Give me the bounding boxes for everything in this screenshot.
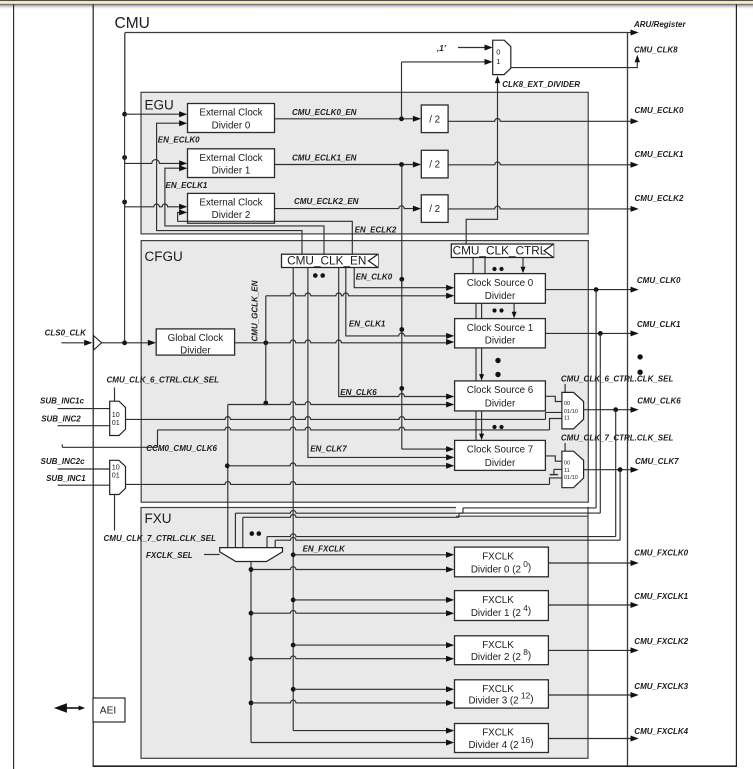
CMU_CLK1 node dot — [598, 331, 603, 336]
CMU_CLK8 output wire — [511, 60, 638, 68]
svg-text:EN_ECLK0: EN_ECLK0 — [158, 136, 200, 145]
svg-text:0: 0 — [496, 48, 500, 57]
outer frame bottom border — [93, 765, 737, 767]
CS6-CS7 arrow line — [481, 411, 483, 435]
CMU_CLK6 output wire — [584, 409, 632, 411]
svg-text:CMU_ECLK0: CMU_ECLK0 — [635, 106, 684, 115]
CS0-CS1 arrowhead — [512, 312, 517, 319]
fxclk sel dots — [250, 531, 255, 536]
svg-text:11: 11 — [564, 416, 570, 422]
Clock Source 7 Divider box — [455, 440, 546, 470]
CMU_FXCLK4 output wire — [548, 738, 632, 740]
svg-text:CMU_FXCLK1: CMU_FXCLK1 — [634, 592, 688, 601]
svg-text:Divider: Divider — [180, 345, 211, 356]
svg-text:AEI: AEI — [100, 706, 116, 717]
CS6-CS7 dots — [492, 425, 496, 429]
svg-text:CLS0_CLK: CLS0_CLK — [45, 329, 88, 338]
svg-text:EN_CLK1: EN_CLK1 — [349, 320, 386, 329]
EN_CLK6 wire — [339, 268, 448, 397]
CMU_CLK7 node dot — [618, 467, 623, 472]
arrow clk into fx3 — [446, 700, 454, 706]
CCM0 vertical — [157, 430, 159, 447]
svg-text:CMU_FXCLK4: CMU_FXCLK4 — [634, 727, 688, 736]
EN_FXCLK branch 2 — [293, 644, 448, 646]
CMU_FXCLK2 output wire — [548, 649, 632, 651]
svg-text:01: 01 — [112, 418, 120, 427]
arrow into /2 box 2 — [413, 206, 421, 212]
gray rule under tan bar — [0, 4, 753, 5]
input buffer triangle — [94, 336, 102, 350]
External Clock Divider 0 box — [188, 104, 275, 133]
vertical CMU border clk feed — [124, 114, 126, 343]
FXCLK_SEL dash — [204, 554, 220, 556]
svg-text:EN_ECLK1: EN_ECLK1 — [166, 181, 208, 190]
gclk wire to CS0 — [266, 293, 448, 296]
svg-text:00: 00 — [564, 401, 570, 407]
clk7 mux select stub — [564, 443, 566, 451]
arrow into /2 box 0 — [413, 116, 421, 122]
mux1 output wire — [126, 417, 546, 420]
arrow clk into fx4 — [446, 740, 454, 746]
/2 box 2 — [421, 195, 448, 223]
mux CLK8_EXT_DIVIDER — [493, 40, 511, 74]
svg-text:Divider 0: Divider 0 — [212, 120, 251, 131]
CS0-CS1 stub b — [481, 303, 483, 318]
svg-text:Clock Source 0: Clock Source 0 — [467, 278, 534, 289]
svg-text:CMU_FXCLK3: CMU_FXCLK3 — [634, 682, 688, 691]
Clock Source 0 Divider box — [455, 274, 546, 304]
arrow clk into fx1 — [446, 610, 454, 616]
left page margin line — [13, 4, 15, 769]
arrow EN into divider2 — [179, 209, 187, 215]
svg-text:/ 2: / 2 — [429, 204, 440, 215]
svg-text:ARU/Register: ARU/Register — [633, 20, 686, 29]
register CMU_CLK_CTRL — [451, 244, 553, 258]
FXU notch bottom edge — [456, 515, 588, 517]
dist node dot CS0 — [399, 277, 404, 282]
svg-text:EN_CLK7: EN_CLK7 — [310, 445, 347, 454]
svg-text:01: 01 — [112, 471, 120, 480]
gclk branch down — [265, 343, 267, 405]
fx clk node dot 3 — [249, 701, 254, 706]
arrow EN into fx4 — [446, 728, 454, 734]
EN_CLK0 wire — [354, 268, 448, 288]
arrow EN into divider1 — [179, 165, 187, 171]
node dot row1 tap — [399, 162, 404, 167]
CMU_CLK1 arrowhead — [631, 330, 639, 336]
svg-text:01/10: 01/10 — [564, 475, 578, 481]
gclk wire to CS7 — [227, 463, 448, 466]
svg-text:EN_CLK6: EN_CLK6 — [340, 388, 377, 397]
register CMU_CLK_EN — [282, 254, 379, 267]
fx clk branch 3 — [251, 700, 448, 703]
omitted outputs dots — [637, 354, 642, 359]
CMU_ECLK0 arrowhead — [631, 118, 639, 124]
SUB_INC2c wire — [58, 468, 110, 470]
AEI box — [93, 698, 125, 722]
svg-text:CMU_CLK_CTRL: CMU_CLK_CTRL — [453, 244, 547, 258]
svg-text:FXCLK: FXCLK — [482, 640, 514, 651]
tan highlight bar — [0, 1, 753, 4]
dist turn into CS7 — [402, 448, 448, 450]
svg-text:FXU: FXU — [145, 511, 172, 526]
EN_FXCLK node dot 0 — [291, 552, 296, 557]
gclk node dot low — [263, 401, 268, 406]
wire row0 to divider0 — [125, 113, 181, 115]
FXCLK Divider 3 box — [455, 680, 549, 708]
CMU_CLK7 arrowhead — [631, 467, 639, 473]
EN_FXCLK branch 0 — [293, 554, 448, 556]
dist stub CS0 — [401, 279, 403, 287]
svg-text:1: 1 — [496, 57, 500, 66]
Clock Source 6 Divider box — [455, 381, 546, 411]
/2 box 0 — [421, 105, 448, 133]
mux1 output into CLK6 mux — [546, 412, 562, 419]
EN_ECLK2 enable wire — [178, 212, 353, 254]
CLK1 feedback — [599, 333, 601, 513]
SUB_INC2 wire — [58, 425, 110, 427]
CMU_CLK7 output wire — [584, 469, 632, 471]
CMU_FXCLK0 output wire — [548, 562, 632, 564]
ARU/Register wire — [628, 32, 633, 34]
svg-text:CMU_ECLK0_EN: CMU_ECLK0_EN — [292, 108, 357, 117]
arrow dist into CS7 — [446, 446, 454, 452]
constant tie symbol — [553, 469, 555, 474]
mux2 output into CLK7 mux — [550, 478, 562, 485]
gclk branch up — [265, 296, 267, 343]
FXU top-right white notch — [456, 503, 587, 516]
CMU block left edge upper — [124, 33, 126, 115]
svg-text:CMU_CLK_7_CTRL.CLK_SEL: CMU_CLK_7_CTRL.CLK_SEL — [561, 434, 674, 443]
mux2 select stub — [114, 495, 116, 531]
svg-text:CMU_FXCLK2: CMU_FXCLK2 — [634, 637, 688, 646]
tie wire into mux — [554, 468, 562, 470]
svg-text:SUB_INC2c: SUB_INC2c — [41, 457, 86, 466]
fx clk branch 0 — [251, 567, 448, 570]
External Clock Divider 2 box — [188, 193, 275, 223]
svg-text:CMU_CLK6: CMU_CLK6 — [637, 396, 681, 405]
arrow into mux input 0 — [485, 45, 493, 51]
EN_FXCLK node dot 2 — [291, 643, 296, 648]
CLK0 feedback — [595, 290, 597, 508]
svg-text:Divider: Divider — [485, 291, 516, 302]
arrow EN into divider0 — [179, 120, 187, 126]
outer frame left border — [92, 4, 94, 766]
fx clk branch 2 — [251, 656, 448, 659]
arrow clk into fx0 — [446, 567, 454, 573]
mux1 select stub — [114, 388, 116, 402]
wire ,1' to mux — [458, 47, 486, 49]
svg-text:Divider: Divider — [485, 335, 516, 346]
CCM0 stub — [61, 444, 63, 447]
Global Clock Divider box — [156, 329, 234, 355]
clk6 mux select stub — [564, 384, 566, 393]
svg-text:Divider: Divider — [485, 458, 516, 469]
svg-text:EN_FXCLK: EN_FXCLK — [303, 544, 346, 553]
CMU block top edge — [125, 32, 628, 34]
dist stub CS1 — [401, 330, 403, 336]
arrow EN_CLK0 into CS0 — [446, 285, 454, 291]
svg-text:SUB_INC2: SUB_INC2 — [41, 414, 81, 423]
CMU_ECLK1 output wire — [448, 162, 632, 165]
CMU_ECLK2 arrowhead — [631, 206, 639, 212]
gclk down vertical left — [227, 405, 229, 548]
outer frame right border — [735, 4, 737, 766]
arrow into mux input 1 — [485, 59, 493, 65]
arrow EN into fx0 — [446, 552, 454, 558]
CMU_FXCLK3 output wire — [548, 694, 632, 696]
CS6 to mux wire — [545, 396, 562, 401]
CMU_ECLK2 output wire — [448, 206, 632, 209]
svg-text:CLK8_EXT_DIVIDER: CLK8_EXT_DIVIDER — [502, 80, 580, 89]
CLK8 select vertical with arrow — [466, 80, 497, 245]
node dot ECLK0/mux tap — [399, 116, 404, 121]
svg-text:CMU_CLK_7_CTRL.CLK_SEL: CMU_CLK_7_CTRL.CLK_SEL — [104, 534, 217, 543]
wire from ECLK0 node to mux input 1 — [402, 61, 487, 63]
CMU_CLK8 output arrowhead — [635, 55, 640, 63]
CLS0_CLK arrowhead — [84, 340, 92, 346]
arrow EN_CLK6 into CS6 — [446, 394, 454, 400]
CLK6 feedback — [615, 410, 617, 537]
AEI bus arrow — [64, 707, 80, 709]
FXCLK Divider 4 box — [455, 724, 549, 753]
svg-text:FXCLK: FXCLK — [482, 728, 514, 739]
gclk node dot CS7 — [225, 463, 230, 468]
wire divider1 to /2 — [275, 164, 416, 166]
svg-text:Global Clock: Global Clock — [168, 333, 224, 344]
wire row2 to divider2 — [125, 202, 181, 207]
ctrl dots — [492, 267, 496, 271]
EN_FXCLK branch 3 — [293, 688, 448, 690]
ctrl arrow line — [522, 258, 524, 269]
svg-text:FXCLK_SEL: FXCLK_SEL — [146, 551, 193, 560]
node dot on CMU border clk — [122, 340, 127, 345]
CMU_CLK6 arrowhead — [631, 407, 639, 413]
svg-text:EN_CLK0: EN_CLK0 — [356, 273, 393, 282]
CLK7 feedback — [619, 470, 621, 541]
EN_ECLK0 enable wire — [157, 123, 302, 254]
wire divider0 to /2 — [275, 118, 416, 120]
svg-text:,1’: ,1’ — [436, 44, 447, 53]
svg-text:CMU_CLK0: CMU_CLK0 — [637, 276, 681, 285]
svg-text:Clock Source 6: Clock Source 6 — [467, 385, 534, 396]
gclk node dot — [263, 340, 268, 345]
fx clk node dot 0 — [249, 567, 254, 572]
svg-text:Divider: Divider — [485, 398, 516, 409]
CS1-CS6 arrow line — [481, 348, 483, 376]
node dot row1 on CMU border — [122, 155, 127, 160]
FXCLK Divider 0 box — [455, 547, 549, 577]
arrow into GCD — [148, 340, 156, 346]
wire row1 to divider1 — [125, 158, 181, 164]
node dot row0 on CMU border — [122, 112, 127, 117]
svg-text:External Clock: External Clock — [199, 197, 262, 208]
EN_ECLK1 enable wire — [165, 168, 324, 254]
dist node dot CS6 — [399, 386, 404, 391]
CS1-CS6 arrowhead — [479, 374, 484, 381]
soft shadow fade — [0, 5, 753, 10]
svg-text:Divider 1: Divider 1 — [212, 166, 251, 177]
CS0-CS1 arrow line — [513, 303, 515, 313]
CMU_FXCLK1 arrowhead — [631, 602, 639, 608]
wire buffer to GCD — [102, 342, 150, 344]
arrow into divider0 clk — [179, 111, 187, 117]
svg-text:CMU: CMU — [115, 15, 150, 32]
CS0-CS1 stub a — [475, 303, 477, 318]
svg-text:FXCLK: FXCLK — [482, 684, 514, 695]
CMU_CLK0 node dot — [594, 287, 599, 292]
svg-text:/ 2: / 2 — [429, 160, 440, 171]
fx mux output vertical — [250, 562, 252, 743]
arrow gclk into CS0 — [446, 293, 454, 299]
CS6-CS7 stub — [475, 411, 477, 441]
svg-text:Clock Source 1: Clock Source 1 — [467, 323, 533, 334]
svg-text:CMU_CLK7: CMU_CLK7 — [635, 457, 679, 466]
svg-text:SUB_INC1c: SUB_INC1c — [40, 397, 85, 406]
mux CLK7 — [562, 451, 584, 488]
mux2 output wire — [126, 482, 550, 485]
svg-text:01/10: 01/10 — [564, 409, 578, 415]
svg-text:00: 00 — [564, 460, 570, 466]
arrow into divider1 clk — [179, 160, 187, 166]
arrow clk into fx2 — [446, 656, 454, 662]
omitted stages dots — [495, 358, 500, 363]
wire divider2 to /2 — [275, 206, 416, 209]
dist stub CS6 — [401, 388, 403, 396]
arrow EN_CLK7 into CS7 — [446, 454, 454, 460]
mux2 SUB_INC — [110, 460, 126, 494]
Clock Source 1 Divider box — [455, 319, 546, 348]
EN_FXCLK branch 1 — [293, 599, 448, 601]
gclk main wire — [235, 340, 448, 343]
CS0-CS1 dots — [492, 308, 496, 312]
External Clock Divider 1 box — [188, 149, 275, 178]
CCM0 long wire — [158, 427, 550, 430]
CMU_FXCLK3 arrowhead — [631, 692, 639, 698]
FXCLK Divider 1 box — [455, 591, 549, 621]
svg-text:CMU_CLK_6_CTRL.CLK_SEL: CMU_CLK_6_CTRL.CLK_SEL — [107, 375, 220, 384]
CMU_FXCLK4 arrowhead — [631, 736, 639, 742]
svg-text:External Clock: External Clock — [199, 153, 262, 164]
EN_FXCLK node dot 3 — [291, 687, 296, 692]
CS6-CS7 arrowhead — [479, 434, 484, 441]
EN dots under CMU_CLK_EN — [313, 273, 318, 278]
svg-text:CMU_FXCLK0: CMU_FXCLK0 — [634, 548, 688, 557]
fx clk node dot 1 — [249, 611, 254, 616]
mux1 SUB_INC — [110, 401, 126, 435]
CMU_FXCLK1 output wire — [548, 604, 632, 606]
EN_CLK1 wire — [346, 268, 448, 336]
fx clk branch 1 — [251, 610, 448, 613]
SUB_INC1 wire — [58, 484, 110, 486]
CLK8 select arrowhead — [495, 76, 500, 84]
clock distribution vertical — [401, 165, 403, 450]
svg-text:Clock Source 7: Clock Source 7 — [467, 445, 533, 456]
EN_FXCLK turn 4 — [293, 730, 448, 732]
svg-text:CMU_CLK8: CMU_CLK8 — [634, 46, 678, 55]
svg-text:External Clock: External Clock — [199, 108, 262, 119]
svg-text:EN_ECLK2: EN_ECLK2 — [355, 226, 397, 235]
svg-text:CMU_ECLK2: CMU_ECLK2 — [635, 194, 684, 203]
CMU_CLK6 node dot — [613, 407, 618, 412]
arrow into divider2 clk — [179, 204, 187, 210]
CS1-CS6 stub — [475, 348, 477, 381]
fx clk node dot 2 — [249, 656, 254, 661]
svg-text:FXCLK: FXCLK — [482, 551, 514, 562]
svg-text:11: 11 — [564, 468, 570, 474]
arrow EN into fx2 — [446, 642, 454, 648]
CMU_CLK0 output wire — [545, 289, 632, 291]
FXCLK Divider 2 box — [455, 636, 549, 665]
svg-text:FXCLK: FXCLK — [482, 595, 514, 606]
svg-text:CMU_ECLK2_EN: CMU_ECLK2_EN — [294, 197, 359, 206]
node dot row2 on CMU border — [122, 200, 127, 205]
svg-text:CCM0_CMU_CLK6: CCM0_CMU_CLK6 — [146, 444, 217, 453]
EN_FXCLK node dot 1 — [291, 598, 296, 603]
svg-text:CMU_CLK_EN: CMU_CLK_EN — [287, 254, 366, 268]
CMU block right edge — [627, 33, 629, 767]
ARU/Register arrowhead — [631, 30, 639, 36]
svg-text:CFGU: CFGU — [145, 249, 183, 264]
arrow into /2 box 1 — [413, 162, 421, 168]
EGU block — [141, 92, 588, 234]
ctrl stub b — [484, 258, 486, 274]
CCM0 wire horizontal — [62, 446, 157, 448]
vertical ECLK0 to CLK8 mux — [401, 62, 403, 119]
CS7 to mux wire — [545, 456, 562, 461]
arrow EN into fx3 — [446, 686, 454, 692]
CCM0 into CLK6 mux — [550, 419, 562, 430]
arrow gclk into CS1 — [446, 339, 454, 345]
svg-text:CMU_ECLK1: CMU_ECLK1 — [635, 150, 684, 159]
SUB_INC1c wire — [58, 408, 110, 410]
CMU_CLK0 arrowhead — [631, 287, 639, 293]
CMU_FXCLK0 arrowhead — [631, 560, 639, 566]
svg-text:CMU_CLK1: CMU_CLK1 — [637, 320, 681, 329]
CMU_ECLK0 output wire — [448, 119, 632, 122]
fx clk turn 4 — [251, 742, 448, 744]
svg-text:CMU_CLK_6_CTRL.CLK_SEL: CMU_CLK_6_CTRL.CLK_SEL — [561, 374, 674, 383]
browser top dark strip — [0, 0, 753, 1]
arrow EN_CLK1 into CS1 — [446, 333, 454, 339]
svg-text:CMU_ECLK1_EN: CMU_ECLK1_EN — [292, 153, 357, 162]
CFGU block — [141, 241, 588, 503]
svg-text:CMU_GCLK_EN: CMU_GCLK_EN — [251, 280, 260, 341]
arrow gclk into CS7 — [446, 463, 454, 469]
CLS0_CLK wire — [61, 342, 86, 344]
arrow gclk into CS6 — [446, 402, 454, 408]
svg-text:SUB_INC1: SUB_INC1 — [46, 474, 86, 483]
EN_FXCLK vertical from CMU_CLK_EN — [292, 268, 294, 731]
EN_CLK7 wire — [308, 268, 448, 458]
svg-text:/ 2: / 2 — [429, 114, 440, 125]
ctrl stub a — [472, 258, 474, 274]
svg-text:Divider 2: Divider 2 — [212, 210, 251, 221]
arrow EN into fx1 — [446, 597, 454, 603]
CMU_CLK1 output wire — [545, 332, 632, 334]
ctrl arrowhead into CS0 — [521, 267, 526, 274]
mux CLK6 — [562, 392, 584, 429]
dist node dot CS1 — [399, 327, 404, 332]
svg-text:EGU: EGU — [145, 98, 174, 113]
FXU block — [141, 508, 588, 759]
CMU_FXCLK2 arrowhead — [631, 647, 639, 653]
CMU_ECLK1 arrowhead — [631, 162, 639, 168]
gclk wire to CS6 — [228, 402, 448, 405]
mux FXCLK_SEL — [220, 548, 283, 562]
/2 box 1 — [421, 150, 448, 178]
